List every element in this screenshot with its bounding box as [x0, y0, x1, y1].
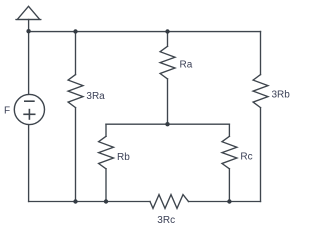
wire: Rb bottom lead — [105, 169, 107, 202]
wire: 3Rb bottom lead to bottom-right corner — [260, 108, 262, 202]
wire: 3Ra bottom lead — [75, 108, 77, 202]
node B junction dot (Ra bottom) — [165, 122, 169, 126]
wire: 3Ra top lead — [75, 32, 77, 75]
svg-text:3Rc: 3Rc — [157, 215, 175, 226]
wire: bottom bus left segment — [29, 201, 150, 203]
wire: top bus from node A to top-right corner — [29, 31, 261, 33]
junction dot Rc bottom — [227, 199, 231, 203]
svg-text:3Ra: 3Ra — [86, 91, 105, 102]
wire: right branch top lead (3Rb) — [260, 32, 262, 75]
resistor Ra — [160, 46, 175, 79]
svg-text:Rc: Rc — [240, 151, 252, 162]
svg-text:F: F — [4, 106, 10, 117]
antenna symbol (triangle) — [16, 6, 41, 19]
wire: Ra bottom lead to node B — [167, 79, 169, 124]
junction dot Rb bottom — [104, 199, 108, 203]
node A junction dot — [26, 29, 30, 33]
resistor Rc — [222, 136, 237, 169]
wire: Rc top lead — [228, 124, 230, 136]
wire: triangle stem to node A — [28, 20, 30, 32]
svg-text:3Rb: 3Rb — [272, 90, 291, 101]
resistor Rb — [99, 136, 114, 169]
source F (circle with - and +) — [14, 94, 44, 124]
junction dot 3Ra top — [73, 29, 77, 33]
resistor 3Rb — [253, 75, 268, 108]
wire: Rb top lead — [105, 124, 107, 136]
wire: Rc bottom lead — [228, 169, 230, 202]
wire: inner bus from Rb top to Rc top through node B — [106, 123, 229, 125]
resistor 3Rc (horizontal) — [150, 195, 189, 209]
svg-text:Rb: Rb — [117, 152, 130, 163]
junction dot Ra top — [165, 29, 169, 33]
junction dot 3Ra bottom — [73, 199, 77, 203]
wire: Ra top lead — [167, 32, 169, 47]
svg-text:Ra: Ra — [180, 60, 193, 71]
wire: bottom bus right segment — [189, 201, 261, 203]
wire: node A down to source F top — [28, 32, 30, 95]
resistor 3Ra — [68, 75, 83, 108]
wire: source F bottom to bottom-left corner — [28, 125, 30, 202]
